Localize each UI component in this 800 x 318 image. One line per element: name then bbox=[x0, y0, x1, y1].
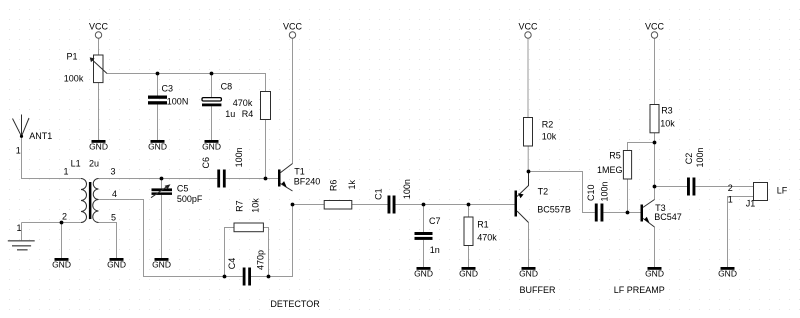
svg-text:R2: R2 bbox=[542, 120, 554, 130]
svg-text:C5: C5 bbox=[177, 184, 189, 194]
wire VCC2 to T1 collector bbox=[292, 38, 294, 163]
ground GND (L1 pin5) bbox=[107, 258, 126, 270]
wire R3 bottom to collector node bbox=[654, 133, 656, 187]
power VCC (P1) bbox=[89, 21, 109, 38]
capacitor C4 bbox=[243, 268, 251, 286]
junction node R7 left bbox=[223, 275, 227, 279]
svg-text:2: 2 bbox=[728, 183, 733, 193]
wire C3 bottom to GND bbox=[157, 105, 159, 141]
wire C7 top lead bbox=[423, 205, 425, 233]
junction node T1 emitter bbox=[291, 203, 295, 207]
wire VCC1 to P1 top bbox=[98, 38, 100, 55]
svg-text:R3: R3 bbox=[661, 105, 673, 115]
svg-text:BUFFER: BUFFER bbox=[520, 285, 557, 295]
svg-text:C3: C3 bbox=[162, 83, 174, 93]
wire T3 emitter to GND bbox=[654, 227, 656, 267]
svg-text:100k: 100k bbox=[64, 74, 84, 84]
wire C7 bottom to GND bbox=[423, 240, 425, 267]
junction node R3-R5 bbox=[653, 141, 657, 145]
wire P1 wiper bias line to R4 top bbox=[107, 74, 266, 92]
wire P1 bottom to GND bbox=[98, 83, 100, 140]
capacitor C3 bbox=[148, 96, 167, 105]
resistor R1 bbox=[464, 217, 473, 246]
svg-text:R5: R5 bbox=[609, 151, 621, 161]
svg-text:T1: T1 bbox=[294, 167, 305, 177]
ground GND (C7) bbox=[414, 267, 433, 279]
svg-text:100n: 100n bbox=[402, 179, 412, 199]
svg-text:DETECTOR: DETECTOR bbox=[270, 299, 320, 309]
wire C3 top lead bbox=[157, 74, 159, 96]
svg-text:C4: C4 bbox=[227, 258, 237, 270]
resistor R3 bbox=[650, 105, 659, 133]
junction node T2 emitter bbox=[527, 170, 531, 174]
transformer L1 bbox=[81, 179, 99, 223]
wire C5 bottom to GND bbox=[161, 195, 163, 258]
svg-text:C7: C7 bbox=[429, 216, 441, 226]
wire buffer output to C10 bbox=[529, 172, 595, 213]
svg-text:10k: 10k bbox=[660, 119, 675, 129]
resistor R2 bbox=[524, 118, 533, 147]
ground GND (J1) bbox=[718, 267, 737, 279]
wire T1 emitter node to R6 bbox=[293, 204, 325, 206]
wire R7 right leg bbox=[263, 228, 268, 277]
wire J1 pin 1 to GND bbox=[728, 197, 754, 268]
resistor R5 bbox=[623, 151, 631, 180]
wire R5 bottom lead bbox=[627, 179, 629, 213]
wire C8 top lead bbox=[211, 74, 213, 98]
transistor T2 BC557B bbox=[515, 172, 529, 223]
svg-text:470k: 470k bbox=[477, 233, 497, 243]
svg-text:500pF: 500pF bbox=[177, 194, 203, 204]
svg-text:100n: 100n bbox=[695, 147, 705, 167]
wire earth stem bbox=[21, 223, 23, 241]
svg-text:5: 5 bbox=[111, 213, 116, 223]
svg-text:L1: L1 bbox=[71, 158, 81, 168]
wire C1 to T2 base bbox=[396, 204, 515, 206]
svg-text:2: 2 bbox=[62, 212, 67, 222]
svg-text:ANT1: ANT1 bbox=[29, 131, 52, 141]
junction node C8 top bbox=[210, 72, 214, 76]
wire C10 to T3 base bbox=[603, 212, 640, 214]
svg-text:BC557B: BC557B bbox=[537, 205, 571, 215]
svg-text:100n: 100n bbox=[234, 147, 244, 167]
svg-text:R7: R7 bbox=[235, 200, 245, 212]
junction node T3 base bbox=[626, 211, 630, 215]
wire L1 pin4 to bottom loop bbox=[99, 200, 243, 277]
capacitor C2 bbox=[687, 178, 695, 196]
earth ground bbox=[8, 241, 35, 250]
svg-text:LF: LF bbox=[777, 185, 788, 195]
svg-text:BC547: BC547 bbox=[654, 212, 682, 222]
capacitor C6 bbox=[217, 170, 225, 188]
capacitor C1 bbox=[388, 196, 396, 214]
svg-text:R6: R6 bbox=[328, 180, 338, 192]
wire L1 pin3 to C6 left bbox=[99, 178, 218, 180]
ground GND (P1) bbox=[89, 140, 108, 152]
capacitor C8 (polarized) bbox=[202, 98, 221, 107]
wire VCC3 to R2 top bbox=[527, 38, 529, 117]
wire R2 bottom to emitter node bbox=[527, 146, 529, 172]
svg-text:C1: C1 bbox=[374, 188, 384, 200]
svg-text:470p: 470p bbox=[255, 250, 265, 270]
svg-text:3: 3 bbox=[111, 167, 116, 177]
svg-text:1k: 1k bbox=[347, 179, 357, 189]
svg-text:C6: C6 bbox=[201, 157, 211, 169]
svg-text:4: 4 bbox=[112, 189, 117, 199]
capacitor C5 (variable) bbox=[151, 184, 172, 197]
wire R7 left leg bbox=[225, 228, 235, 277]
junction node C5 top bbox=[160, 177, 164, 181]
wire R5 top lead bbox=[628, 143, 655, 151]
transistor T3 BC547 bbox=[641, 200, 655, 228]
wire R1 bottom to GND bbox=[468, 246, 470, 268]
svg-text:1n: 1n bbox=[430, 245, 440, 255]
ground GND (C8) bbox=[202, 140, 221, 152]
svg-text:P1: P1 bbox=[67, 52, 78, 62]
junction node R1 bbox=[467, 203, 471, 207]
wire T3 collector vertical bbox=[654, 187, 656, 200]
wire L1 pin5 to GND bbox=[99, 223, 117, 259]
svg-text:1: 1 bbox=[17, 223, 22, 233]
svg-text:100n: 100n bbox=[599, 181, 609, 201]
wire C5 top lead bbox=[161, 179, 163, 189]
capacitor C7 bbox=[415, 232, 433, 240]
wire R4 bottom to T1 base node bbox=[265, 120, 267, 179]
junction node T3 collector bbox=[653, 185, 657, 189]
power VCC (LF preamp) bbox=[645, 21, 665, 38]
svg-text:10k: 10k bbox=[542, 132, 557, 142]
svg-text:R1: R1 bbox=[477, 220, 489, 230]
wire T3 collector node to C2 bbox=[655, 186, 688, 188]
wire C4 right to emitter node bbox=[251, 205, 293, 277]
wire C2 to J1 pin 2 bbox=[695, 186, 753, 188]
svg-text:2u: 2u bbox=[89, 158, 99, 168]
wire R6 to C1 bbox=[352, 204, 388, 206]
transistor T1 BF240 bbox=[278, 164, 293, 192]
junction node T1 base bbox=[264, 177, 268, 181]
capacitor C10 bbox=[595, 204, 604, 222]
wire L1 pin2 GND drop bbox=[61, 223, 63, 259]
junction node P1-C3 bbox=[156, 72, 160, 76]
svg-text:10k: 10k bbox=[250, 198, 260, 213]
connector J1 bbox=[754, 183, 768, 201]
svg-text:C2: C2 bbox=[684, 153, 694, 165]
junction node R7 right bbox=[267, 275, 271, 279]
wire antenna to L1 pin 1 bbox=[22, 136, 82, 178]
power VCC (buffer) bbox=[518, 21, 538, 38]
svg-text:R4: R4 bbox=[242, 109, 254, 119]
junction node L1 pin2 gnd bbox=[60, 221, 64, 225]
svg-text:BF240: BF240 bbox=[294, 177, 321, 187]
ground GND (C3) bbox=[148, 140, 167, 152]
svg-text:T2: T2 bbox=[538, 187, 549, 197]
svg-text:1MEG: 1MEG bbox=[597, 165, 623, 175]
svg-text:C10: C10 bbox=[586, 184, 596, 201]
resistor R7 bbox=[234, 223, 263, 232]
svg-text:470k: 470k bbox=[233, 98, 253, 108]
resistor R4 bbox=[261, 92, 271, 120]
antenna ANT1 bbox=[13, 115, 30, 138]
ground GND (T3) bbox=[645, 267, 664, 279]
svg-text:C8: C8 bbox=[221, 82, 233, 92]
ground GND (T2) bbox=[519, 267, 538, 279]
svg-text:1: 1 bbox=[16, 146, 21, 156]
wire VCC4 to R3 top bbox=[654, 38, 656, 104]
ground GND (L1 pin2) bbox=[52, 258, 71, 270]
svg-text:J1: J1 bbox=[746, 199, 756, 209]
svg-text:1u: 1u bbox=[225, 109, 235, 119]
junction node C7 bbox=[422, 203, 426, 207]
svg-text:100N: 100N bbox=[167, 97, 189, 107]
svg-text:1: 1 bbox=[728, 194, 733, 204]
ground GND (R1) bbox=[459, 267, 478, 279]
wire T2 collector to GND bbox=[528, 223, 530, 268]
ground GND (C5) bbox=[152, 258, 171, 270]
resistor R6 bbox=[324, 201, 352, 210]
potentiometer P1 bbox=[90, 55, 107, 83]
wire C8 bottom to GND bbox=[211, 106, 213, 140]
svg-text:1: 1 bbox=[64, 167, 69, 177]
wire R1 top lead bbox=[468, 205, 470, 218]
wire C6 right to T1 base bbox=[226, 178, 278, 180]
power VCC (T1) bbox=[283, 21, 303, 38]
wire earth to L1 pin 2 bbox=[22, 222, 82, 224]
svg-text:LF PREAMP: LF PREAMP bbox=[614, 285, 665, 295]
